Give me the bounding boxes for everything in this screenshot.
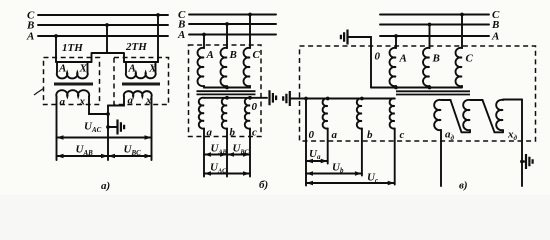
winding 2TH secondary <box>124 91 152 96</box>
svg-text:A: A <box>491 31 499 43</box>
wire: lead a down (scheme b) <box>203 129 205 177</box>
dimension U_b line <box>306 173 362 175</box>
node: neutral-A junction (scheme v) <box>394 86 398 90</box>
core (scheme b) <box>197 91 256 94</box>
svg-text:a: a <box>207 127 213 139</box>
winding secondary a (scheme v) <box>323 98 328 128</box>
svg-text:b: b <box>230 127 236 139</box>
arrowhead U_AB left <box>57 154 64 159</box>
arrowhead U_AB right <box>101 154 108 159</box>
winding primary C (scheme v) <box>456 48 462 86</box>
svg-text:X: X <box>148 63 157 75</box>
svg-text:x: x <box>79 96 86 108</box>
arrowhead U_BC left <box>108 154 115 159</box>
arrowhead v3 <box>306 171 313 176</box>
wire: lead c down (scheme b) <box>249 129 251 177</box>
winding 1TH primary <box>56 62 92 78</box>
wire: 2TH x lead down <box>151 97 153 161</box>
dashed box transformer 2TH <box>114 58 169 105</box>
arrowhead U_BC right <box>145 154 152 159</box>
wire: primary star point (scheme b) <box>204 86 250 88</box>
svg-text:1ТН: 1ТН <box>62 42 83 54</box>
svg-text:A: A <box>58 63 66 75</box>
slash mark on 1TH box edge <box>34 89 44 96</box>
bus B (scheme v) <box>380 24 489 26</box>
node: 1TH-x join <box>106 112 110 116</box>
svg-text:0: 0 <box>309 129 315 141</box>
wire: lead b down (scheme b) <box>226 129 228 177</box>
wire: ground stub (scheme a) <box>108 126 117 128</box>
wire: 0 lead down (scheme v) <box>305 99 307 186</box>
arrowhead b2 <box>220 152 227 157</box>
node: a junction (scheme v) <box>326 97 330 101</box>
core (scheme v) <box>396 91 470 94</box>
wire: secondary neutral line (scheme v) <box>290 98 395 100</box>
ground (open delta) <box>526 154 533 169</box>
winding 2TH primary <box>124 62 158 78</box>
winding primary C (scheme b) <box>244 48 250 86</box>
bus A (scheme v) <box>380 35 489 37</box>
arrowhead v6 <box>388 181 395 186</box>
winding aux 1 (open delta) <box>434 100 450 130</box>
bus B (scheme a) <box>38 24 168 26</box>
svg-text:xд: xд <box>507 129 518 143</box>
arrowhead b1 <box>204 152 211 157</box>
svg-text:A: A <box>26 31 34 43</box>
node: tap A (scheme v) <box>394 34 398 38</box>
svg-text:a: a <box>60 96 66 108</box>
arrowhead v2 <box>321 159 328 164</box>
bus A (scheme b) <box>189 34 276 36</box>
node: ground tap (scheme a) <box>106 125 110 129</box>
wire: phase C tap (scheme v) <box>461 15 463 49</box>
bus A (scheme a) <box>38 35 168 37</box>
ground (scheme v primary neutral) <box>341 30 348 45</box>
bus B (scheme b) <box>189 23 276 25</box>
node: tap B (scheme b) <box>225 22 229 26</box>
node: b junction (scheme v) <box>360 97 364 101</box>
dimension U_AC line (scheme b) <box>204 173 250 175</box>
svg-text:A: A <box>128 63 136 75</box>
svg-text:c: c <box>400 129 405 141</box>
wire: a_d lead down <box>440 130 442 186</box>
core 1TH <box>54 83 93 86</box>
svg-text:Ua: Ua <box>309 148 321 161</box>
svg-text:0: 0 <box>252 101 258 113</box>
arrowhead b4 <box>243 152 250 157</box>
arrowhead b5 <box>204 171 211 176</box>
svg-text:A: A <box>206 49 214 61</box>
winding primary A (scheme b) <box>198 48 204 86</box>
wire: C-phase lead to 2TH <box>157 15 159 62</box>
svg-text:a: a <box>128 95 134 107</box>
dimension U_AB/U_BC line (scheme b) <box>204 154 250 156</box>
wire: A-phase lead to 1TH <box>55 36 57 62</box>
wire: 1TH a lead down <box>56 97 58 161</box>
winding primary B (scheme b) <box>221 48 227 86</box>
svg-text:aд: aд <box>445 129 455 143</box>
node: neutral-B junction (scheme v) <box>428 86 432 90</box>
arrowhead v5 <box>306 181 313 186</box>
node: tap B on bus B <box>105 23 109 27</box>
dimension U_c line <box>306 182 395 184</box>
svg-text:UAB: UAB <box>76 144 94 157</box>
node: tap A on bus A <box>54 34 58 38</box>
winding secondary a (scheme b) <box>199 98 204 129</box>
wire: b lead down (scheme v) <box>361 129 363 176</box>
wire: common secondary mid lead <box>107 106 109 161</box>
core 2TH <box>122 83 160 86</box>
winding secondary b (scheme v) <box>357 98 362 128</box>
svg-text:c: c <box>252 127 257 139</box>
svg-text:A: A <box>177 29 185 41</box>
svg-text:0: 0 <box>375 51 381 63</box>
wire: tee B to 1TH-X and 2TH-A <box>92 53 125 62</box>
dashed box transformer (scheme b) <box>189 45 262 137</box>
svg-text:X: X <box>79 63 88 75</box>
wire: x_d lead down <box>521 100 523 187</box>
wire: phase B tap (scheme v) <box>429 25 431 49</box>
svg-text:B: B <box>229 49 237 61</box>
wire: phase A tap (scheme v) <box>395 36 397 48</box>
node: tap C on bus C <box>156 13 160 17</box>
svg-text:C: C <box>253 49 261 61</box>
bus C (scheme a) <box>38 14 168 16</box>
node: tap C (scheme v) <box>460 13 464 17</box>
node: tap C (scheme b) <box>248 13 252 17</box>
winding primary B (scheme v) <box>423 48 429 86</box>
arrowhead U_AC right <box>145 135 152 140</box>
wire: a lead down (scheme v) <box>327 129 329 164</box>
wire: 2TH a lead jog <box>108 97 124 106</box>
dashed box transformer (scheme v) <box>300 46 536 141</box>
node: 0-lead junction (scheme v) <box>304 97 308 101</box>
wire: c lead down (scheme v) <box>394 129 396 185</box>
svg-text:C: C <box>466 53 474 65</box>
wire: secondary neutral line (scheme b) <box>204 97 267 99</box>
svg-text:UAC: UAC <box>84 121 102 134</box>
svg-text:b: b <box>367 129 373 141</box>
svg-text:a: a <box>332 129 338 141</box>
wire: primary star neutral (scheme v) <box>371 86 462 88</box>
node: tap A (scheme b) <box>202 33 206 37</box>
winding aux 2 (open delta) <box>463 100 482 132</box>
dimension U_AC line <box>57 137 152 139</box>
ground (scheme a secondary) <box>118 120 125 135</box>
wire: ground stub (scheme v right) <box>522 161 526 163</box>
svg-text:UBC: UBC <box>124 144 142 157</box>
winding aux 3 (open delta) <box>496 100 522 133</box>
arrowhead v4 <box>355 171 362 176</box>
wire: zigzag link 2 <box>483 100 504 132</box>
dimension U_AB/U_BC line <box>57 155 152 157</box>
arrowhead b3 <box>227 152 234 157</box>
arrowhead v1 <box>306 159 313 164</box>
dimension U_a line <box>306 160 328 162</box>
wire: primary neutral to ground (scheme v) <box>348 37 372 88</box>
wire: B-phase tap down <box>106 25 108 53</box>
bus C (scheme v) <box>380 14 489 16</box>
node: tap B (scheme v) <box>428 23 432 27</box>
node: x_d ground tap <box>520 160 524 164</box>
node: secondary b junction <box>225 96 229 100</box>
svg-text:B: B <box>491 19 499 31</box>
wire: 1TH x lead jog <box>89 97 108 115</box>
wire: phase B tap (scheme b) <box>226 24 228 48</box>
winding 1TH secondary <box>56 90 89 96</box>
ground (scheme v secondary neutral) <box>283 91 290 106</box>
bus C (scheme b) <box>189 14 276 16</box>
svg-text:A: A <box>399 53 407 65</box>
wire: phase A tap (scheme b) <box>203 35 205 49</box>
ground (scheme b secondary) <box>270 90 277 105</box>
svg-text:б): б) <box>259 179 268 191</box>
winding primary A (scheme v) <box>390 48 396 86</box>
svg-text:а): а) <box>101 180 110 192</box>
winding secondary c (scheme v) <box>390 98 395 128</box>
wire: zigzag link 1 <box>451 100 471 132</box>
node: primary neutral junction (scheme b) <box>225 86 229 90</box>
winding secondary c (scheme b) <box>245 98 250 129</box>
dashed box transformer 1TH <box>44 58 100 105</box>
node: secondary c junction <box>248 96 252 100</box>
arrowhead U_AC left <box>57 135 64 140</box>
winding secondary b (scheme b) <box>222 98 227 129</box>
arrowhead b6 <box>243 171 250 176</box>
svg-text:2ТН: 2ТН <box>125 41 147 53</box>
svg-text:B: B <box>432 53 440 65</box>
wire: phase C tap (scheme b) <box>249 15 251 49</box>
svg-text:в): в) <box>459 180 468 192</box>
